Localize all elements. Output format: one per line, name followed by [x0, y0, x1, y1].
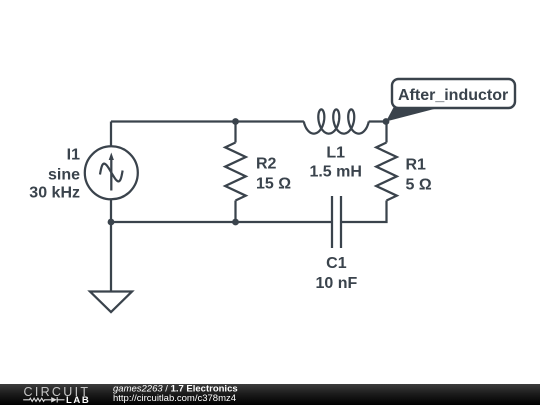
wire inductor right lead to node After_inductor — [369, 120, 386, 122]
I1 value label — [29, 147, 80, 202]
node junction dot: bottom rail / source — [108, 219, 115, 226]
node junction dot: After_inductor node — [383, 118, 390, 125]
svg-text:R2: R2 — [256, 156, 277, 173]
svg-text:1.5 mH: 1.5 mH — [309, 164, 361, 181]
wire left branch top (top rail to source) — [110, 122, 112, 147]
svg-text:After_inductor: After_inductor — [398, 87, 508, 104]
node After_inductor callout box — [392, 79, 515, 108]
wire R1 top lead — [385, 122, 387, 143]
CircuitLab logo resistor-diode line — [23, 397, 64, 402]
inductor L1 — [304, 109, 369, 133]
R1 value label — [406, 157, 432, 194]
capacitor C1 right plate — [340, 196, 342, 248]
wire ground stem — [110, 222, 112, 292]
svg-text:R1: R1 — [406, 157, 427, 174]
svg-text:http://circuitlab.com/c378mz4: http://circuitlab.com/c378mz4 — [113, 393, 236, 404]
svg-text:30 kHz: 30 kHz — [29, 185, 80, 202]
node junction dot: bottom rail / R2 — [232, 219, 239, 226]
L1 value label — [309, 145, 361, 181]
wire bottom rail to capacitor left plate — [111, 221, 332, 223]
wire R2 bottom lead — [234, 201, 236, 223]
svg-text:10 nF: 10 nF — [316, 275, 358, 292]
svg-text:I1: I1 — [67, 147, 80, 164]
R2 value label — [256, 156, 291, 193]
svg-text:15 Ω: 15 Ω — [256, 176, 291, 193]
node After_inductor callout pointer — [386, 107, 438, 122]
node junction dot: top rail / R2 — [232, 118, 239, 125]
svg-text:C1: C1 — [326, 255, 347, 272]
wire top rail from R2 node to inductor — [236, 120, 304, 122]
wire R1 bottom lead running to capacitor right plate — [341, 201, 387, 223]
C1 value label — [316, 255, 358, 292]
wire left branch bottom (source to bottom rail) — [110, 199, 112, 222]
svg-text:LAB: LAB — [66, 395, 90, 405]
resistor R1 — [376, 143, 397, 201]
wire top rail from source to R2 node — [111, 120, 236, 122]
resistor R2 — [225, 143, 246, 201]
svg-text:5 Ω: 5 Ω — [406, 177, 432, 194]
wire R2 top lead — [234, 122, 236, 143]
current source I1 — [85, 146, 138, 199]
capacitor C1 left plate — [331, 196, 333, 248]
svg-text:sine: sine — [48, 167, 80, 184]
ground — [90, 292, 132, 313]
svg-text:L1: L1 — [326, 145, 345, 162]
